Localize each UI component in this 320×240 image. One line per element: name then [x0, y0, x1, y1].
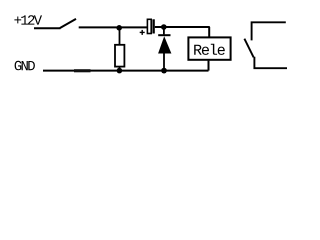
switch S1 blade — [60, 19, 76, 28]
wire bottom rail thick overlap segment — [74, 69, 91, 72]
wire diode top lead — [163, 27, 165, 34]
wire +12V lead under label — [34, 27, 61, 29]
wire top rail right of capacitor — [155, 26, 210, 28]
wire relay contact bottom rail — [254, 57, 287, 68]
wire resistor top lead — [119, 27, 121, 45]
node junction dot resistor top — [116, 25, 122, 31]
switch S2 relay contact blade — [244, 39, 253, 58]
node GND label — [15, 61, 35, 71]
wire relay contact top rail — [252, 22, 286, 40]
capacitor C1 left plate (hollow) — [147, 19, 151, 33]
diode D1 triangle (anode, pointing up) — [158, 36, 171, 53]
capacitor C1 right plate (solid) — [152, 19, 154, 33]
relay K1 coil box — [188, 37, 230, 59]
node junction dot diode top — [161, 24, 167, 30]
relay label Rele — [194, 44, 225, 55]
node junction dot diode bottom — [161, 68, 167, 74]
resistor R1 body — [115, 45, 124, 67]
diode D1 cathode bar — [158, 34, 170, 36]
wire relay top lead with bend — [208, 27, 210, 37]
wire GND bottom rail — [43, 70, 209, 72]
wire relay bottom lead — [208, 61, 210, 71]
node +12V label — [14, 15, 42, 24]
capacitor C1 plus polarity mark — [140, 31, 145, 33]
wire resistor bottom lead — [119, 67, 121, 71]
wire top rail left of capacitor — [79, 26, 148, 28]
node junction dot resistor bottom — [117, 68, 123, 74]
wire diode bottom lead — [163, 54, 165, 71]
